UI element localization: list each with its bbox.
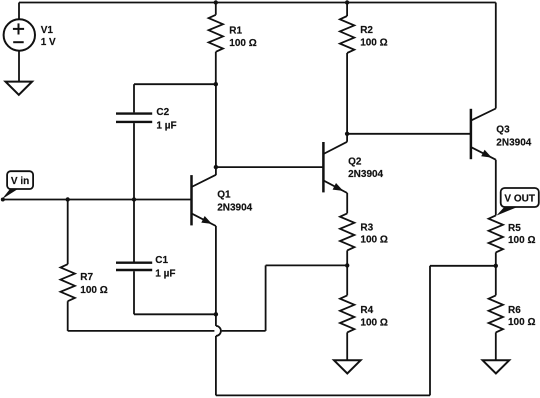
svg-text:R5: R5 [508,223,521,234]
node Q1 emitter / C1 bottom [214,312,218,316]
wire V in rail [2,199,192,201]
V in callout label [2,171,33,199]
svg-text:2N3904: 2N3904 [496,137,531,148]
resistor R1 [209,3,257,85]
node V in anchor [1,198,5,202]
svg-text:C1: C1 [155,255,168,266]
wire Q2 collector to Q3 base [347,133,471,135]
resistor R5 [489,215,536,265]
wire Q1 emitter down [215,226,217,326]
svg-text:R6: R6 [508,305,521,316]
node Q1 collector [214,165,218,169]
svg-text:Q3: Q3 [496,125,510,136]
resistor R4 [340,265,388,360]
voltage source V1 [4,3,56,82]
wire Q2 emitter to R3 [346,193,348,213]
resistor R3 [340,213,388,265]
svg-text:1 µF: 1 µF [156,120,176,131]
transistor Q3 [471,109,532,160]
resistor R6 [489,266,536,361]
capacitor C2 [116,84,216,199]
svg-text:V1: V1 [41,25,54,36]
node R7 top [66,197,70,201]
svg-text:R4: R4 [360,305,373,316]
svg-text:Q2: Q2 [348,157,362,168]
node R3/R4 [345,263,349,267]
node C1/C2 junction [132,197,136,201]
transistor Q2 [323,142,383,193]
wire Q3 emitter to R5 [495,160,497,216]
wire right vertical to Q3 collector [495,3,497,109]
wire Q1 emitter bottom rail [216,394,430,396]
wire bottom rail up vertical [429,266,431,396]
resistor R7 [61,200,108,331]
svg-text:100 Ω: 100 Ω [508,235,535,246]
svg-text:100 Ω: 100 Ω [508,317,535,328]
svg-text:1 µF: 1 µF [155,269,175,280]
svg-text:1 V: 1 V [41,37,56,48]
wire R7 bottom horizontal (right of hop) [222,330,266,332]
svg-text:V OUT: V OUT [504,194,535,205]
wire Q1 emitter to bottom rail [215,336,217,396]
wire R7 bottom horizontal (left of hop) [68,330,215,332]
svg-text:100 Ω: 100 Ω [80,285,107,296]
svg-text:Q1: Q1 [217,190,231,201]
svg-text:R2: R2 [360,25,373,36]
wire horizontal to R5/R6 node [430,265,496,267]
svg-text:2N3904: 2N3904 [348,169,383,180]
node R1 top [214,0,218,4]
wire horizontal to R3/R4 node [266,264,348,266]
wire hop over R7 wire [216,326,221,336]
svg-text:C2: C2 [156,107,169,118]
node R5/R6 [494,264,498,268]
node R1 bottom / C2 [214,82,218,86]
node Q2 collector [345,132,349,136]
capacitor C1 [116,200,216,315]
wire top rail [19,2,496,4]
wire Q1 collector to Q2 base [216,166,324,168]
svg-text:100 Ω: 100 Ω [360,38,387,49]
svg-text:100 Ω: 100 Ω [360,235,387,246]
svg-text:100 Ω: 100 Ω [360,317,387,328]
node R2 top [345,0,349,4]
ground (R6) [483,360,510,373]
svg-text:R3: R3 [360,223,373,234]
transistor Q1 [192,84,253,226]
svg-text:2N3904: 2N3904 [217,202,252,213]
ground (R4) [334,360,361,373]
ground (V1) [6,82,33,95]
svg-text:V in: V in [11,176,29,187]
V OUT callout label [496,188,538,216]
svg-text:R7: R7 [80,272,93,283]
svg-text:100 Ω: 100 Ω [229,38,256,49]
svg-text:R1: R1 [229,25,242,36]
resistor R2 [340,3,388,142]
wire vertical up to R3 net [265,265,267,331]
